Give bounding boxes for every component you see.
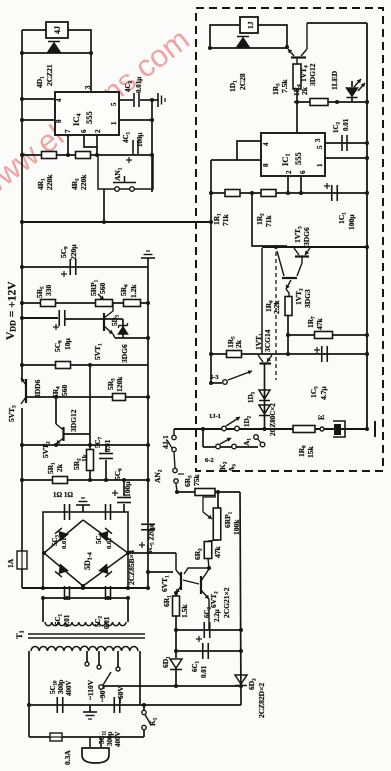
wire y480 bbox=[20, 478, 150, 482]
IC1 pin 5 bbox=[316, 145, 324, 149]
label VDD bbox=[5, 281, 19, 340]
svg-text:6-3: 6-3 bbox=[210, 374, 219, 381]
wire y630 bbox=[174, 628, 241, 632]
IC1 pin 6 bbox=[299, 170, 307, 174]
wire 4J right lead bbox=[68, 30, 91, 92]
wire AN1 to rail bbox=[102, 189, 106, 224]
resistor 6R3 bbox=[183, 474, 215, 496]
diode 4D1 bbox=[35, 42, 60, 89]
wire y651 bbox=[174, 649, 241, 653]
fuse 1A bbox=[6, 551, 27, 569]
svg-text:100μ: 100μ bbox=[136, 133, 144, 148]
svg-text:4: 4 bbox=[55, 98, 63, 102]
wire bus x148 bbox=[147, 267, 149, 588]
wire y354 bbox=[211, 352, 369, 356]
svg-text:7.5k: 7.5k bbox=[280, 79, 289, 93]
capacitor 5C5 bbox=[139, 524, 156, 554]
button AN1 bbox=[113, 167, 136, 191]
svg-text:2: 2 bbox=[285, 170, 293, 174]
primary winding bbox=[31, 646, 138, 651]
switch K1 bbox=[142, 705, 159, 737]
svg-text:~110V: ~110V bbox=[86, 679, 95, 700]
svg-text:75k: 75k bbox=[192, 474, 201, 487]
svg-text:8: 8 bbox=[55, 119, 63, 123]
plug bbox=[82, 737, 109, 763]
svg-text:3: 3 bbox=[84, 85, 92, 89]
capacitor 6C1 bbox=[191, 643, 208, 678]
fuse 0.3A bbox=[50, 733, 72, 765]
rail x367 bbox=[366, 23, 368, 429]
wire pin1 y158 bbox=[325, 156, 369, 160]
svg-text:0.01μ: 0.01μ bbox=[135, 77, 143, 93]
resistor 1R3 bbox=[271, 64, 301, 95]
transistor 5VT3 bbox=[7, 378, 26, 422]
svg-text:220k: 220k bbox=[79, 174, 88, 190]
svg-text:15k: 15k bbox=[306, 446, 315, 459]
pin 2 label bbox=[94, 129, 102, 133]
svg-text:0.01: 0.01 bbox=[103, 616, 111, 629]
wire base feed y572 bbox=[146, 570, 173, 574]
wire 1R3 to IC1 bbox=[296, 89, 298, 133]
transistor 6VT2 bbox=[201, 569, 231, 630]
IC1 pin 2 bbox=[285, 170, 293, 174]
svg-text:2C28: 2C28 bbox=[238, 73, 247, 90]
wire 553 extension bbox=[148, 553, 176, 570]
node bridge right bbox=[126, 551, 130, 555]
wire diode column bbox=[263, 364, 267, 431]
bridge diamond bbox=[44, 520, 128, 586]
wire pin6 drop bbox=[299, 176, 303, 195]
wire IC1 pins 4-8 bracket bbox=[211, 141, 261, 160]
svg-text:100μ: 100μ bbox=[123, 481, 132, 497]
capacitor 4C2 bbox=[124, 77, 143, 107]
capacitor 5C10 bbox=[49, 680, 73, 714]
wire y445 bbox=[20, 443, 150, 447]
svg-text:4J-1: 4J-1 bbox=[161, 435, 170, 449]
transistor 1VT1 bbox=[254, 248, 272, 364]
IC1 pin 4 bbox=[262, 142, 270, 146]
svg-text:555: 555 bbox=[293, 152, 303, 165]
terminal bar right bbox=[374, 421, 376, 437]
wire collectors y247 bbox=[262, 245, 369, 249]
svg-text:0.01: 0.01 bbox=[342, 118, 350, 131]
svg-text:5: 5 bbox=[316, 145, 324, 149]
wire pin5 y143 bbox=[325, 141, 369, 145]
wire collector y23 bbox=[307, 22, 367, 24]
capacitor 1C3 bbox=[309, 346, 328, 400]
tap 110V bbox=[85, 651, 95, 700]
wire pin8 y120 bbox=[20, 118, 55, 122]
wire secondary y598 bbox=[41, 596, 130, 600]
svg-text:6: 6 bbox=[299, 170, 307, 174]
diode 1D2 bbox=[243, 405, 270, 427]
svg-text:3DG12: 3DG12 bbox=[308, 63, 317, 86]
probe E bbox=[317, 415, 345, 437]
wire contact row y429 bbox=[174, 427, 369, 431]
svg-text:400V: 400V bbox=[114, 731, 122, 747]
resistor 4R2 bbox=[70, 152, 91, 191]
wire 1J right bbox=[258, 25, 289, 49]
capacitor 6C2 bbox=[196, 606, 221, 642]
IC1 pin 8 bbox=[262, 163, 270, 167]
svg-text:220k: 220k bbox=[45, 174, 54, 190]
capacitor 5C11 bbox=[98, 697, 122, 747]
svg-text:47k: 47k bbox=[213, 546, 222, 559]
svg-text:330: 330 bbox=[44, 285, 53, 297]
contact 6-3 bbox=[210, 370, 252, 384]
transistor 6VT1 bbox=[160, 568, 209, 595]
potentiometer 5RP1 bbox=[89, 279, 113, 306]
resistor 5R6 bbox=[119, 284, 141, 307]
capacitor 1C1 bbox=[324, 183, 356, 230]
wire mains y705 bbox=[27, 703, 241, 707]
svg-text:1: 1 bbox=[110, 121, 118, 125]
svg-text:71k: 71k bbox=[264, 215, 273, 228]
svg-text:0.01: 0.01 bbox=[200, 665, 208, 678]
IC U4 555 box bbox=[55, 92, 119, 135]
LED 1LED bbox=[330, 70, 365, 102]
ground above bridge bbox=[76, 498, 90, 512]
wire x203 drop bbox=[202, 429, 204, 447]
wire y318 bbox=[20, 316, 58, 320]
secondary winding bbox=[45, 622, 126, 626]
wire diode row y48 bbox=[210, 47, 287, 49]
wire bus x211 bbox=[209, 160, 213, 385]
capacitor 5C6 bbox=[112, 468, 132, 512]
capacitor 4C1 bbox=[122, 131, 144, 163]
svg-text:1: 1 bbox=[316, 163, 324, 167]
svg-text:300p: 300p bbox=[57, 680, 65, 695]
wire 5VT2 base y434 bbox=[64, 433, 90, 435]
svg-text:2CZ82D×2: 2CZ82D×2 bbox=[257, 683, 266, 718]
resistor 6R1 bbox=[162, 593, 189, 630]
svg-text:2.2μ: 2.2μ bbox=[213, 609, 221, 622]
svg-text:3DG3: 3DG3 bbox=[303, 289, 312, 308]
node x91-y53 bbox=[89, 51, 93, 55]
resistor 5R4 bbox=[33, 362, 71, 399]
svg-text:6: 6 bbox=[80, 129, 88, 133]
svg-text:71k: 71k bbox=[221, 214, 230, 227]
svg-text:2k: 2k bbox=[300, 86, 309, 95]
button AN2 chain bbox=[153, 429, 184, 492]
resistor 6R2 bbox=[193, 540, 222, 568]
svg-text:1.5k: 1.5k bbox=[180, 604, 189, 618]
svg-text:3DG6: 3DG6 bbox=[302, 227, 311, 246]
svg-text:3DG12: 3DG12 bbox=[69, 409, 78, 432]
wire emitter y338 bbox=[115, 336, 150, 340]
label 2CZ80Cx2 bbox=[269, 403, 277, 436]
label 1ohm marks bbox=[53, 491, 73, 499]
label A3 bbox=[227, 464, 238, 472]
wire x56 drop bbox=[55, 397, 57, 424]
wire pins 6-2 bridge bbox=[84, 135, 99, 157]
label 2CZ85Bx4 bbox=[127, 550, 136, 585]
capacitor 5C1 bbox=[54, 586, 71, 627]
pin 4 label bbox=[55, 98, 63, 102]
svg-text:47k: 47k bbox=[315, 318, 324, 331]
wire pin2 drop bbox=[286, 176, 290, 195]
wire pin1 y120 bbox=[119, 118, 154, 122]
ground mains bbox=[83, 705, 97, 719]
contact A3 row bbox=[203, 435, 265, 449]
svg-text:5: 5 bbox=[110, 102, 118, 106]
svg-text:2.2k: 2.2k bbox=[272, 300, 281, 314]
ground right of 4C2 bbox=[150, 93, 165, 107]
svg-text:100μ: 100μ bbox=[347, 214, 356, 230]
selector arm bbox=[99, 672, 111, 689]
wire x241 drop bbox=[239, 492, 243, 705]
wire y335 bbox=[286, 333, 369, 337]
diode 1D1 bbox=[228, 37, 249, 93]
label K2 bbox=[218, 461, 229, 470]
svg-text:4: 4 bbox=[262, 142, 270, 146]
resistor 1R2 bbox=[255, 190, 276, 228]
capacitor 5C7 bbox=[94, 436, 113, 480]
wire y365 bbox=[20, 363, 148, 367]
svg-text:3DD6: 3DD6 bbox=[33, 379, 42, 398]
diode 6D1 bbox=[161, 630, 182, 688]
transistor 1VT3 bbox=[293, 226, 311, 263]
wire timing row y155 bbox=[20, 153, 154, 157]
wire y102 bbox=[294, 100, 369, 104]
node x22-y53 bbox=[20, 51, 24, 55]
diode 6D2 bbox=[235, 675, 266, 718]
svg-text:560: 560 bbox=[60, 385, 69, 397]
resistor 1R4 bbox=[292, 84, 328, 106]
capacitor 5C3 bbox=[51, 504, 70, 549]
node bridge bottom bbox=[81, 584, 85, 588]
svg-text:4.7μ: 4.7μ bbox=[319, 386, 328, 400]
resistor 1R8 bbox=[293, 426, 315, 459]
dashed enclosure bbox=[196, 8, 383, 471]
watermark bbox=[0, 22, 196, 207]
wire secondary ends bbox=[43, 598, 128, 622]
wire 1J left bbox=[208, 25, 240, 50]
relay 4J bbox=[46, 22, 68, 38]
pin 5 label bbox=[110, 102, 118, 106]
wire bridge to bus bbox=[128, 552, 148, 554]
pin 7 label bbox=[64, 129, 72, 133]
tap 60V bbox=[116, 651, 125, 703]
zener 5D3 bbox=[111, 314, 128, 338]
svg-text:300p: 300p bbox=[106, 732, 114, 747]
svg-text:10μ: 10μ bbox=[63, 338, 72, 351]
wire ac y686 bbox=[103, 685, 241, 687]
bridge diode D4 bbox=[100, 565, 112, 577]
svg-text:560: 560 bbox=[98, 283, 107, 295]
svg-text:100k: 100k bbox=[232, 519, 241, 535]
ground above x148 bbox=[141, 251, 155, 267]
IC U1 555 box bbox=[261, 133, 325, 176]
capacitor 5C9 bbox=[59, 244, 78, 277]
wire dc bus y588 bbox=[22, 586, 150, 590]
svg-text:3DG6: 3DG6 bbox=[120, 344, 129, 363]
svg-text:555: 555 bbox=[84, 111, 94, 124]
relay 1J bbox=[240, 17, 258, 33]
wire pin5 y100 bbox=[119, 99, 152, 101]
capacitor 5C8 bbox=[53, 310, 72, 352]
svg-text:2CZ21: 2CZ21 bbox=[45, 64, 54, 86]
wire y267 bbox=[20, 265, 148, 269]
label T1 bbox=[14, 630, 26, 639]
svg-text:2k: 2k bbox=[55, 463, 64, 472]
svg-text:1J-1: 1J-1 bbox=[209, 413, 221, 420]
transistor 5VT2 bbox=[41, 409, 78, 458]
svg-text:4J: 4J bbox=[53, 26, 62, 34]
mech link dashed bbox=[275, 252, 277, 380]
svg-text:6-2: 6-2 bbox=[205, 457, 214, 464]
IC1 label bbox=[280, 152, 303, 166]
rail y303 bbox=[20, 301, 150, 305]
svg-text:2CZ85B×4: 2CZ85B×4 bbox=[127, 550, 136, 585]
resistor 1R5 bbox=[226, 336, 243, 358]
svg-text:1.2k: 1.2k bbox=[129, 284, 138, 298]
svg-text:220μ: 220μ bbox=[69, 244, 78, 260]
svg-text:2: 2 bbox=[94, 129, 102, 133]
tap 90V bbox=[97, 651, 107, 702]
resistor 1R1 bbox=[212, 190, 240, 227]
wire left bus x22 bbox=[21, 30, 23, 588]
wire x252 drop bbox=[252, 193, 287, 246]
wire anode row y53 bbox=[22, 52, 91, 54]
wire timing row y193 bbox=[211, 191, 369, 195]
svg-text:1A: 1A bbox=[6, 558, 15, 568]
wire 5VT1 base bbox=[65, 318, 123, 320]
transistor 1VT2 bbox=[277, 251, 312, 308]
wire 4J left lead bbox=[22, 29, 46, 31]
svg-text:E: E bbox=[317, 415, 326, 420]
IC1 pin 1 bbox=[316, 163, 324, 167]
wire pin4 y99 bbox=[20, 97, 55, 101]
svg-text:0.01: 0.01 bbox=[104, 439, 112, 452]
svg-text:3: 3 bbox=[314, 138, 322, 142]
capacitor 5C2 bbox=[94, 586, 111, 629]
resistor 1R6 bbox=[264, 297, 292, 355]
svg-text:5C5 220μ: 5C5 220μ bbox=[145, 524, 156, 554]
pin 6 label bbox=[80, 129, 88, 133]
bridge diode D1 bbox=[55, 528, 67, 540]
node collectors bbox=[207, 566, 211, 570]
label S-2 bbox=[205, 457, 214, 464]
resistor 5R2 bbox=[72, 365, 94, 480]
IC1 pin 3 bbox=[314, 138, 322, 142]
svg-text:0.3A: 0.3A bbox=[63, 750, 72, 765]
transistor 5VT1 bbox=[93, 303, 129, 363]
resistor 5R5 bbox=[35, 285, 56, 307]
pin 8 label bbox=[55, 119, 63, 123]
wire x152 drop bbox=[151, 100, 153, 192]
resistor 5R3 bbox=[106, 376, 126, 401]
svg-text:1Ω 1Ω: 1Ω 1Ω bbox=[53, 491, 73, 499]
svg-text:7: 7 bbox=[64, 129, 72, 133]
wire y492 bbox=[175, 490, 240, 494]
button AN1 box bbox=[98, 155, 153, 189]
bridge box bbox=[43, 512, 128, 588]
svg-text:1LED: 1LED bbox=[330, 70, 339, 90]
label 5D1-4 bbox=[83, 552, 94, 570]
contact 1J-1 bbox=[209, 413, 240, 431]
pin 1 label bbox=[110, 121, 118, 125]
node bridge left bbox=[42, 551, 46, 555]
svg-text:1J: 1J bbox=[246, 21, 255, 29]
svg-text:2CZ80C×2: 2CZ80C×2 bbox=[269, 403, 277, 436]
pin 3 label bbox=[84, 85, 92, 89]
svg-text:2k: 2k bbox=[234, 339, 243, 348]
core bbox=[28, 634, 145, 638]
primary box sides bbox=[29, 651, 140, 737]
wire pin7 drop bbox=[66, 135, 70, 157]
bridge diode D2 bbox=[100, 528, 112, 540]
wire 5VT3 base y397 bbox=[26, 395, 150, 399]
node 5R4 out bbox=[88, 363, 92, 367]
potentiometer 6RP1 bbox=[203, 492, 241, 540]
label A1 bbox=[242, 438, 253, 446]
IC4 label bbox=[71, 111, 94, 126]
resistor 1R7 bbox=[306, 316, 333, 339]
svg-text:2CG21×2: 2CG21×2 bbox=[222, 587, 231, 618]
svg-text:400V: 400V bbox=[65, 680, 73, 696]
svg-text:8: 8 bbox=[262, 163, 270, 167]
capacitor 1C2 bbox=[332, 118, 350, 151]
resistor 4R1 bbox=[36, 152, 57, 191]
capacitor 5C4 bbox=[95, 504, 113, 549]
svg-text:3CG14: 3CG14 bbox=[263, 329, 272, 352]
wire mains bottom y737 bbox=[29, 736, 144, 738]
diode 1D3 bbox=[247, 390, 270, 403]
svg-text:120k: 120k bbox=[115, 376, 124, 392]
resistor 5R1 bbox=[46, 462, 68, 484]
transistor 1VT4 bbox=[288, 23, 317, 86]
rail VDD y222 bbox=[20, 220, 211, 224]
svg-text:1k: 1k bbox=[80, 453, 89, 462]
bridge diode D3 bbox=[55, 565, 67, 577]
